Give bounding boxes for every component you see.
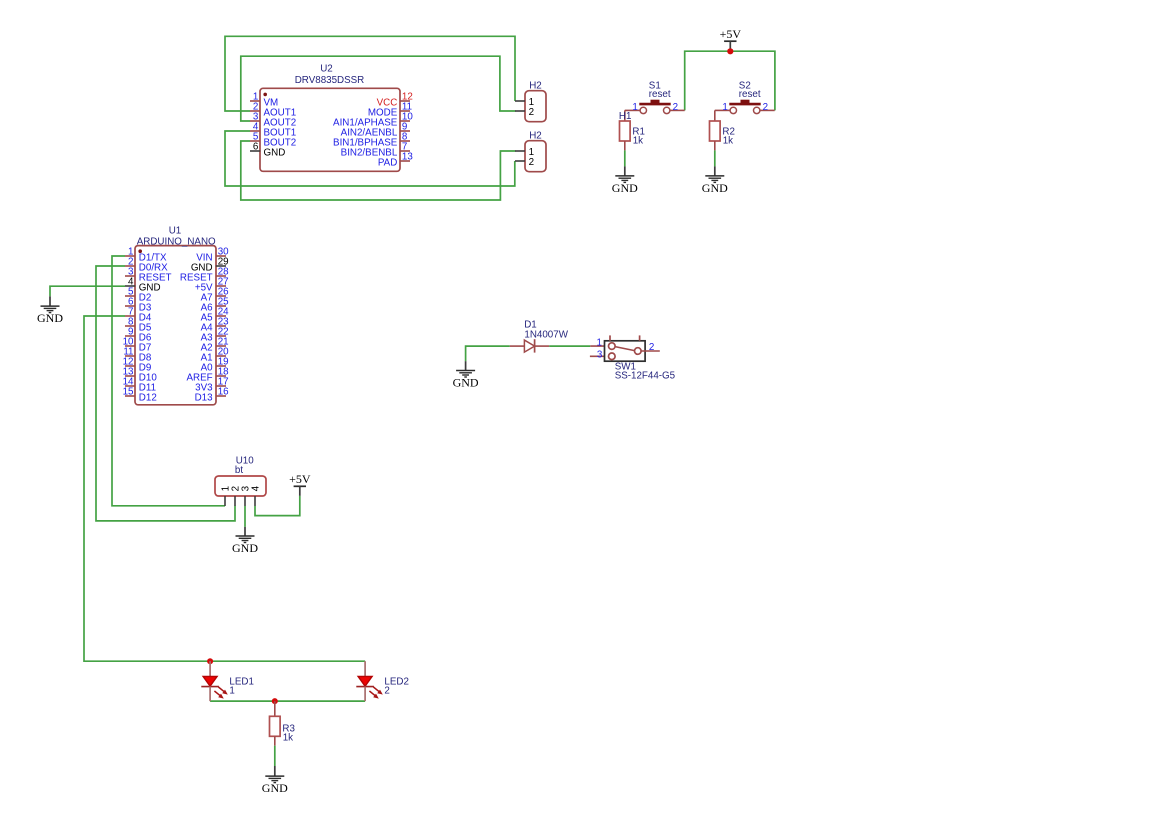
wire U1.7 D4 to LED rail <box>84 316 365 661</box>
wire U2.AOUT1 to H2a.1 <box>225 36 515 111</box>
U1 pin 8 D5 <box>125 317 152 334</box>
U1 pin 13 D10 <box>123 367 158 384</box>
svg-text:H2: H2 <box>529 81 542 92</box>
wire LED rail bottom <box>210 700 365 702</box>
svg-text:H1: H1 <box>619 111 632 122</box>
svg-text:1: 1 <box>632 102 637 113</box>
svg-text:1: 1 <box>229 686 234 697</box>
U2 pin 1 VM <box>250 92 278 109</box>
svg-text:D13: D13 <box>195 392 214 403</box>
connector H2a <box>525 81 546 122</box>
U2 pin 3 AOUT2 <box>250 112 296 129</box>
svg-text:GND: GND <box>702 181 728 195</box>
pushbutton S1 reset <box>625 100 685 114</box>
svg-text:2: 2 <box>649 342 654 353</box>
ground stub U10.3 <box>244 527 246 536</box>
svg-text:GND: GND <box>37 311 63 325</box>
svg-text:6: 6 <box>253 142 259 153</box>
svg-text:PAD: PAD <box>378 157 397 168</box>
wire S1.1 to R1 <box>624 110 626 121</box>
U10 pin 1 <box>220 486 231 506</box>
U2 pin 11 MODE <box>368 102 412 119</box>
wire U2.BOUT1 to H2b.2 <box>225 131 515 186</box>
U10 pin 4 <box>250 485 261 506</box>
svg-text:1: 1 <box>722 102 727 113</box>
U1 pin 12 D9 <box>123 357 152 374</box>
U1 pin 3 RESET <box>125 267 171 284</box>
U1 pin 18 AREF <box>186 367 229 384</box>
IC U2 DRV8835DSSR body <box>260 63 400 171</box>
ground near U1 <box>37 306 63 325</box>
wire rail to R3 <box>274 701 276 716</box>
wire S2.1 to R2 <box>714 110 716 121</box>
ground near D1 <box>453 371 479 390</box>
ground under U10 <box>232 536 258 555</box>
svg-text:ARDUINO_NANO: ARDUINO_NANO <box>137 236 216 247</box>
power +5V (top) <box>720 27 742 49</box>
svg-text:1k: 1k <box>283 733 293 744</box>
svg-text:1k: 1k <box>633 136 643 147</box>
svg-text:H2: H2 <box>529 131 542 142</box>
svg-text:reset: reset <box>649 89 671 100</box>
wire U1.1 D1/TX to U10.1 <box>112 256 225 506</box>
U2 pin 10 AIN1/APHASE <box>333 112 413 129</box>
svg-text:3: 3 <box>597 349 603 360</box>
LED LED2 <box>356 661 409 701</box>
ground under R3 <box>262 776 288 795</box>
junction LED rail at R3 <box>272 698 278 704</box>
svg-text:D12: D12 <box>139 392 157 403</box>
U2 pin 8 BIN1/BPHASE <box>333 132 410 149</box>
wire GND to D1 anode <box>466 346 510 361</box>
ground stub at D1 <box>465 361 467 370</box>
H2b pin 1 <box>515 147 534 158</box>
svg-text:U2: U2 <box>320 63 333 74</box>
svg-text:GND: GND <box>262 781 288 795</box>
resistor R1 1k <box>620 121 645 147</box>
svg-text:1N4007W: 1N4007W <box>524 329 568 340</box>
junction D4 rail at LED1 <box>207 658 213 664</box>
svg-text:2: 2 <box>673 102 678 113</box>
U1 pin 28 RESET <box>180 267 229 284</box>
svg-text:2: 2 <box>529 157 534 168</box>
IC U1 ARDUINO_NANO body <box>135 226 216 405</box>
resistor R2 1k <box>710 121 735 147</box>
wire R3 to GND <box>274 736 276 776</box>
U10 pin 3 <box>240 485 251 506</box>
U1 pin 14 D11 <box>123 377 156 394</box>
U2 pin 2 AOUT1 <box>250 102 296 119</box>
U1 pin 4 GND <box>125 277 161 294</box>
U1 pin 23 A4 <box>201 317 230 334</box>
svg-text:U1: U1 <box>169 226 182 237</box>
U1 pin 2 D0/RX <box>125 257 168 274</box>
U2 pin 4 BOUT1 <box>250 122 296 139</box>
U2 pin 6 GND <box>250 142 285 159</box>
svg-text:1: 1 <box>597 337 602 348</box>
wire D1 cathode to SW1.1 <box>549 345 590 347</box>
svg-text:GND: GND <box>453 376 479 390</box>
wire U2.AOUT2 to H2a.2 <box>241 56 516 121</box>
U2 pin 5 BOUT2 <box>250 132 296 149</box>
svg-text:2: 2 <box>763 102 768 113</box>
U1 pin 16 D13 <box>195 387 230 404</box>
U1 pin 7 D4 <box>125 307 152 324</box>
wire +5V rail to S2.2 <box>730 51 775 110</box>
svg-text:reset: reset <box>739 89 761 100</box>
U1 pin 17 3V3 <box>195 377 228 394</box>
U2 pin 12 VCC <box>377 92 413 109</box>
U1 pin 22 A3 <box>201 327 229 344</box>
svg-text:+5V: +5V <box>720 27 742 41</box>
wire +5V rail to S1.2 <box>685 49 731 111</box>
svg-text:2: 2 <box>384 686 389 697</box>
switch SW1 SS-12F44-G5 <box>590 335 676 381</box>
svg-text:+5V: +5V <box>289 472 311 486</box>
wire U10.4 to +5V <box>255 496 300 516</box>
U1 pin 19 A0 <box>201 357 229 374</box>
wire U10.3 to GND <box>244 506 246 527</box>
H2b pin 2 <box>515 157 534 168</box>
svg-text:GND: GND <box>612 181 638 195</box>
U2 pin 9 AIN2/AENBL <box>341 122 410 139</box>
resistor R3 1k <box>270 716 296 743</box>
wire R2 to GND <box>714 141 716 176</box>
wire U1.2 D0/RX to U10.2 <box>96 266 235 521</box>
U1 pin 30 VIN <box>196 247 229 264</box>
ground under R2 <box>702 176 728 195</box>
svg-text:GND: GND <box>264 147 286 158</box>
U1 pin 1 D1/TX <box>125 247 167 264</box>
junction +5V rail <box>727 48 733 54</box>
wire U1.4 GND <box>50 286 125 296</box>
wire U2.BOUT2 to H2b.1 <box>241 141 516 200</box>
U1 pin 5 D2 <box>125 287 151 304</box>
svg-text:16: 16 <box>218 387 229 398</box>
U2 pin 7 BIN2/BENBL <box>341 142 410 159</box>
power +5V at U10 <box>289 472 311 496</box>
H2a pin 2 <box>515 107 534 118</box>
diode D1 1N4007W <box>510 320 569 353</box>
U1 pin 27 +5V <box>195 277 229 294</box>
H2a pin 1 <box>515 97 534 108</box>
svg-text:1k: 1k <box>723 136 733 147</box>
U1 pin 29 GND <box>191 257 229 274</box>
U1 pin 26 A7 <box>201 287 230 304</box>
U1 pin 9 D6 <box>125 327 152 344</box>
U10 pin 2 <box>230 486 241 506</box>
connector U10 bt body <box>215 456 266 496</box>
connector H2b <box>525 131 546 172</box>
U1 pin 10 D7 <box>123 337 152 354</box>
svg-text:2: 2 <box>529 107 534 118</box>
svg-text:13: 13 <box>402 152 413 163</box>
wire R1 to GND <box>624 141 626 176</box>
svg-text:4: 4 <box>250 485 261 491</box>
svg-text:GND: GND <box>232 541 258 555</box>
U1 pin 11 D8 <box>123 347 152 364</box>
LED LED1 <box>201 661 254 701</box>
svg-text:DRV8835DSSR: DRV8835DSSR <box>295 75 365 86</box>
S1 label <box>649 80 671 100</box>
U1 pin 15 D12 <box>123 387 157 404</box>
svg-text:15: 15 <box>123 387 134 398</box>
svg-text:bt: bt <box>235 465 243 476</box>
U1 pin 6 D3 <box>125 297 152 314</box>
U1 pin 20 A1 <box>201 347 230 364</box>
ground under R1 <box>612 176 638 195</box>
pushbutton S2 reset <box>715 100 775 114</box>
U1 pin 21 A2 <box>201 337 229 354</box>
U1 pin 24 A5 <box>201 307 230 324</box>
U2 pin 13 PAD <box>378 152 413 169</box>
ground stub U1.4 <box>49 296 51 306</box>
svg-text:SS-12F44-G5: SS-12F44-G5 <box>615 371 676 382</box>
S2 label <box>739 80 761 100</box>
U1 pin 25 A6 <box>201 297 230 314</box>
